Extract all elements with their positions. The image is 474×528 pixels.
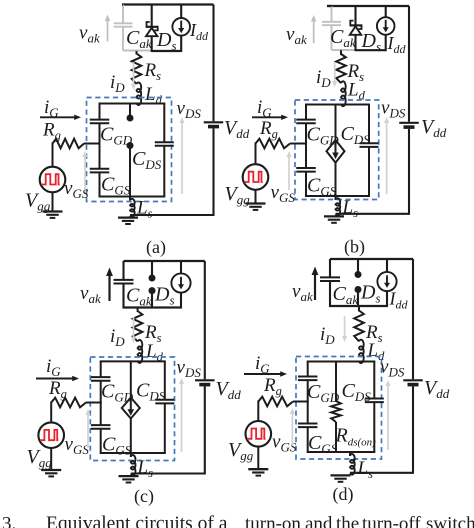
wire grey Cak to diode (b) — [332, 49, 356, 51]
wire middle branch upper (c) — [130, 361, 132, 397]
wire bottom return (c) — [131, 472, 205, 474]
svg-text:vak: vak — [80, 283, 101, 306]
inductor Ld (d) — [359, 340, 364, 363]
wire top rail (a) — [122, 3, 214, 5]
capacitor CGS (b) — [296, 167, 316, 169]
resistor Rg (c) — [51, 398, 86, 408]
wire Idd lower lead (d) — [386, 291, 388, 307]
arrow iD (grey) (a) — [133, 62, 135, 86]
wire left branch lower (d) — [307, 427, 309, 452]
wire bottom return (a) — [130, 214, 214, 216]
wire left branch upper (a) — [99, 104, 101, 120]
wire top rail (c) — [124, 260, 205, 262]
wire left branch upper (b) — [305, 105, 307, 120]
inductor Ld (a) — [137, 82, 142, 105]
wire left branch middle (d) — [307, 380, 309, 423]
wire Rg to Vgg (a) — [52, 143, 54, 167]
arrow vak (grey) (a) — [107, 20, 109, 42]
svg-text:CDS: CDS — [342, 380, 372, 404]
node Ds anode dot (d) — [355, 271, 362, 278]
svg-text:turn-on: turn-on — [245, 514, 301, 528]
wire grey Cak stub lower (a) — [122, 27, 124, 51]
wire right branch lower (b) — [368, 147, 370, 196]
wire lower rail of snubber loop (d) — [329, 305, 388, 307]
wire grey Cak stub upper (a) — [122, 5, 124, 24]
dashed device boundary box (d) — [296, 357, 382, 460]
wire right branch upper (a) — [163, 104, 165, 142]
svg-text:Rs: Rs — [144, 60, 162, 83]
resistor Rs (a) — [132, 54, 142, 85]
svg-text:and: and — [305, 514, 333, 528]
svg-text:iD: iD — [320, 324, 335, 347]
wire Ds branch lower (c) — [151, 291, 153, 309]
wire right outer rail lower (b) — [408, 129, 410, 215]
capacitor CDS (c) — [155, 399, 174, 401]
node Ds cathode dot (c) — [149, 287, 156, 294]
svg-text:CDS: CDS — [136, 380, 166, 404]
wire left branch upper (c) — [100, 361, 102, 376]
svg-text:iD: iD — [110, 326, 125, 349]
wire rail at Cak stub start (b) — [327, 5, 332, 7]
source Vgg circle (a) — [40, 167, 66, 193]
wire Rs upper lead (b) — [340, 50, 342, 55]
wire Rs upper lead (c) — [137, 308, 139, 313]
wire Ds branch upper (c) — [151, 261, 153, 278]
wire grey Cak to diode (a) — [123, 50, 152, 52]
node channel dot upper (a) — [127, 115, 134, 122]
wire Rg to box (c) — [86, 402, 102, 404]
ground at source (c) — [119, 475, 139, 477]
wire right branch lower (d) — [373, 402, 375, 452]
svg-text:CDS: CDS — [132, 148, 162, 172]
capacitor Cak (d) — [320, 276, 340, 278]
wire left branch upper (d) — [307, 362, 309, 377]
node Ds cathode dot (d) — [355, 286, 362, 293]
wire Vgg to ground (a) — [52, 192, 54, 211]
wire diode Ds lower lead (b) — [354, 35, 356, 51]
svg-text:Rg: Rg — [259, 118, 278, 141]
wire diode Ds lower lead (a) — [151, 36, 153, 52]
inductor Ld (c) — [138, 340, 143, 363]
resistor Rds(on) (d) — [331, 401, 341, 422]
wire left branch lower (a) — [99, 173, 101, 197]
svg-text:vGS: vGS — [65, 434, 90, 457]
square wave glyph (b) — [244, 172, 263, 182]
svg-text:vak: vak — [292, 281, 313, 304]
capacitor Cak (c) — [114, 279, 134, 281]
svg-text:Rg: Rg — [48, 378, 67, 401]
dashed device boundary box (a) — [87, 98, 172, 202]
inductor Ls (c) — [131, 455, 136, 475]
wire Cak branch upper (c) — [122, 261, 124, 280]
wire Rg to box (b) — [290, 143, 307, 145]
wire middle branch lower (d) — [335, 422, 337, 452]
svg-text:vGS: vGS — [271, 182, 296, 205]
svg-text:vDS: vDS — [177, 98, 202, 121]
resistor Rg (a) — [53, 139, 85, 149]
wire Vgg to ground (c) — [50, 448, 52, 470]
wire bottom return (b) — [336, 213, 410, 215]
wire Idd upper lead (d) — [386, 259, 388, 272]
arrow iD (grey) (d) — [344, 316, 346, 338]
capacitor CGS (a) — [90, 168, 110, 170]
wire middle branch lower (a) — [129, 146, 131, 197]
wire Ls upper lead (a) — [129, 197, 131, 201]
wire Idd lower lead (b) — [385, 35, 387, 51]
wire Ds-Idd junction (a) — [152, 50, 182, 52]
svg-text:vDS: vDS — [380, 357, 405, 380]
square wave glyph (c) — [40, 430, 59, 440]
svg-text:CGS: CGS — [308, 432, 338, 456]
arrow iG (c) — [36, 378, 74, 380]
svg-text:(c): (c) — [134, 486, 154, 507]
wire rail at Cak stub start (a) — [122, 3, 123, 5]
wire Rg to Vgg (d) — [257, 401, 259, 422]
svg-text:iG: iG — [46, 356, 61, 379]
wire Idd upper lead (a) — [180, 5, 182, 19]
svg-text:CGS: CGS — [102, 434, 132, 458]
wire middle branch lower (c) — [130, 419, 132, 454]
arrow vGS (grey) (c) — [87, 414, 89, 449]
wire right outer rail lower (c) — [204, 386, 206, 474]
wire Idd lower lead (a) — [180, 36, 182, 52]
svg-text:Cak: Cak — [126, 285, 152, 309]
node channel dot lower (a) — [127, 142, 134, 149]
svg-text:Vdd: Vdd — [224, 117, 250, 141]
capacitor Cak (grey) (b) — [322, 21, 341, 23]
inductor Ld (b) — [341, 81, 346, 106]
ground at Vgg (d) — [248, 468, 268, 470]
wire Vgg to ground (d) — [257, 447, 259, 470]
svg-text:(a): (a) — [146, 237, 166, 258]
ground at Vgg (c) — [41, 469, 61, 471]
capacitor CGD (d) — [298, 376, 318, 378]
svg-text:the: the — [336, 514, 359, 528]
arrow vDS (grey) (d) — [387, 385, 389, 451]
wire inner box top (c) — [100, 360, 166, 362]
diode Ds (schottky) (b) — [350, 24, 363, 26]
wire left branch middle (c) — [100, 381, 102, 425]
capacitor Cak (grey) (a) — [114, 22, 133, 24]
wire grey Cak stub lower (b) — [331, 26, 333, 51]
inductor Ls (a) — [130, 199, 135, 217]
current source Idd (d) — [377, 272, 396, 291]
svg-text:Ls: Ls — [357, 458, 374, 481]
wire left branch lower (b) — [305, 172, 307, 196]
wire inner box top (a) — [99, 103, 166, 105]
svg-text:Cak: Cak — [333, 283, 359, 307]
arrow vak (grey) (b) — [313, 20, 315, 43]
wire Rs upper lead (d) — [358, 306, 360, 312]
arrow iD (grey) (b) — [334, 62, 336, 83]
capacitor CDS (a) — [155, 141, 174, 143]
svg-text:CGS: CGS — [101, 174, 131, 198]
dashed device boundary box (b) — [295, 100, 379, 200]
wire right branch upper (c) — [164, 361, 166, 399]
svg-text:3.: 3. — [2, 514, 16, 528]
svg-text:(d): (d) — [333, 484, 354, 505]
source Vgg circle (b) — [243, 164, 269, 190]
wire left branch lower (c) — [100, 429, 102, 453]
resistor Rg (d) — [258, 397, 293, 407]
wire Rg to box (a) — [84, 143, 101, 145]
capacitor CGD (c) — [91, 376, 111, 378]
dependent current source (channel) (c) — [122, 398, 140, 419]
capacitor CDS (d) — [365, 398, 384, 400]
svg-text:Rg: Rg — [263, 375, 282, 398]
wire Ls upper lead (b) — [335, 196, 337, 200]
svg-text:Ds: Ds — [361, 30, 382, 54]
svg-text:Idd: Idd — [389, 289, 409, 312]
svg-text:Equivalent circuits of a: Equivalent circuits of a — [46, 514, 228, 528]
source Vgg circle (c) — [38, 422, 64, 448]
svg-text:Vdd: Vdd — [421, 116, 447, 140]
wire Idd lower lead (c) — [180, 293, 182, 309]
wire middle branch lower (b) — [335, 163, 337, 196]
arrow iG (d) — [244, 373, 282, 375]
wire middle branch upper (b) — [335, 105, 337, 141]
dependent current source (channel) (b) — [327, 140, 345, 163]
wire middle branch upper (a) — [129, 104, 131, 117]
wire top rail (b) — [327, 5, 409, 7]
square wave glyph (a) — [41, 174, 60, 184]
wire inner box top (b) — [305, 104, 370, 106]
arrow vak (black) (c) — [108, 275, 110, 302]
resistor Rg (b) — [256, 139, 291, 149]
wire Idd upper lead (b) — [385, 6, 387, 17]
wire inner box bottom (a) — [99, 196, 166, 198]
wire Rg to Vgg (b) — [255, 143, 257, 165]
node Ds anode dot (c) — [149, 275, 156, 282]
svg-text:CGD: CGD — [307, 124, 340, 148]
wire right branch lower (a) — [163, 146, 165, 196]
wire middle branch upper (d) — [335, 362, 337, 403]
ground at source (b) — [324, 215, 344, 217]
svg-text:switch: switch — [426, 514, 474, 528]
resistor Rs (d) — [354, 311, 364, 342]
capacitor CDS (b) — [360, 142, 379, 144]
wire grey Cak stub upper (b) — [331, 6, 333, 22]
wire diode Ds upper lead (a) — [151, 5, 153, 28]
capacitor CGD (a) — [90, 119, 110, 121]
wire Rs upper lead (a) — [136, 51, 138, 55]
square wave glyph (d) — [247, 429, 266, 439]
wire right outer rail lower (a) — [212, 128, 214, 216]
svg-text:CGS: CGS — [307, 175, 337, 199]
svg-text:Vgg: Vgg — [27, 446, 53, 470]
inductor Ls (b) — [336, 198, 341, 215]
wire inner box bottom (b) — [305, 195, 370, 197]
wire right outer rail upper (d) — [412, 259, 414, 379]
wire Ls upper lead (d) — [349, 452, 351, 456]
battery Vdd (a) — [204, 121, 224, 123]
wire lower rail of snubber loop (c) — [123, 306, 183, 308]
current source Idd (b) — [377, 17, 395, 35]
ground at Vgg (b) — [246, 202, 266, 204]
wire right branch upper (b) — [368, 105, 370, 144]
arrow vGS (grey) (a) — [84, 156, 86, 191]
wire right outer rail lower (d) — [412, 386, 414, 474]
svg-text:CGD: CGD — [307, 381, 340, 405]
arrow vDS (grey) (b) — [386, 122, 388, 195]
svg-text:Vdd: Vdd — [216, 378, 242, 402]
ground at source (a) — [118, 216, 138, 218]
battery Vdd (b) — [399, 122, 419, 124]
wire diode Ds upper lead (b) — [354, 6, 356, 26]
wire right branch upper (d) — [373, 362, 375, 399]
svg-text:vak: vak — [286, 24, 307, 47]
source Vgg circle (d) — [245, 421, 271, 447]
svg-text:Cak: Cak — [126, 27, 152, 51]
inductor Ls (d) — [350, 454, 355, 475]
wire Cak branch lower (c) — [122, 284, 124, 309]
capacitor CGS (d) — [298, 423, 318, 425]
wire bottom return (d) — [350, 472, 413, 474]
diode Ds (schottky) (a) — [146, 26, 159, 28]
svg-text:(b): (b) — [344, 237, 365, 258]
wire Ds-Idd junction (b) — [356, 49, 386, 51]
wire right outer rail upper (c) — [204, 261, 206, 379]
arrow iG (b) — [252, 116, 283, 118]
wire inner box bottom (d) — [307, 451, 376, 453]
svg-text:Vgg: Vgg — [25, 190, 51, 214]
svg-text:Cak: Cak — [330, 26, 356, 50]
resistor Rs (b) — [336, 54, 346, 83]
svg-text:vak: vak — [79, 23, 100, 46]
wire right outer rail upper (a) — [212, 5, 214, 122]
wire right branch lower (c) — [164, 404, 166, 453]
wire left branch middle (b) — [305, 124, 307, 168]
battery Vdd (c) — [195, 379, 215, 381]
resistor Rs (c) — [133, 311, 143, 342]
wire Ds branch upper (d) — [357, 259, 359, 275]
svg-text:Rds(on): Rds(on) — [335, 425, 377, 449]
arrow vDS (grey) (c) — [181, 383, 183, 453]
wire top rail (d) — [330, 258, 413, 260]
wire Ds branch lower (d) — [357, 290, 359, 308]
capacitor CGD (b) — [296, 119, 316, 121]
wire Idd upper lead (c) — [180, 261, 182, 273]
dashed device boundary box (c) — [90, 357, 174, 461]
svg-text:iD: iD — [316, 67, 331, 90]
ground at Vgg (a) — [43, 210, 63, 212]
svg-text:Ls: Ls — [136, 198, 153, 221]
wire Vgg to ground (b) — [255, 190, 257, 204]
wire Rg to box (d) — [293, 401, 309, 403]
wire inner box top (d) — [307, 361, 376, 363]
svg-text:Vdd: Vdd — [424, 377, 450, 401]
wire Cak branch upper (d) — [329, 259, 331, 277]
battery Vdd (d) — [403, 379, 423, 381]
svg-text:turn-off: turn-off — [362, 514, 421, 528]
arrow iG (a) — [40, 116, 76, 118]
wire Cak branch lower (d) — [329, 281, 331, 307]
arrow vGS (grey) (b) — [288, 156, 290, 191]
arrow vak (black) (d) — [314, 274, 316, 301]
wire Ls upper lead (c) — [130, 453, 132, 457]
wire right outer rail upper (b) — [408, 6, 410, 122]
svg-text:CDS: CDS — [341, 123, 371, 147]
svg-text:Rg: Rg — [42, 120, 61, 143]
svg-text:iG: iG — [255, 353, 270, 376]
svg-text:vDS: vDS — [177, 357, 202, 380]
svg-text:iD: iD — [110, 72, 125, 95]
capacitor CGS (c) — [91, 424, 111, 426]
svg-text:Idd: Idd — [189, 20, 209, 43]
current source Idd (c) — [171, 273, 190, 292]
wire Rg to Vgg (c) — [50, 402, 52, 423]
svg-text:vDS: vDS — [381, 98, 406, 121]
arrow iD (grey) (c) — [133, 317, 135, 339]
current source Idd (a) — [172, 18, 190, 36]
wire left branch middle (a) — [99, 124, 101, 169]
arrow vGS (grey) (d) — [291, 413, 293, 447]
ground at source (d) — [331, 474, 351, 476]
arrow vDS (grey) (a) — [181, 122, 183, 195]
wire inner box bottom (c) — [100, 452, 166, 454]
svg-text:Idd: Idd — [387, 33, 407, 56]
